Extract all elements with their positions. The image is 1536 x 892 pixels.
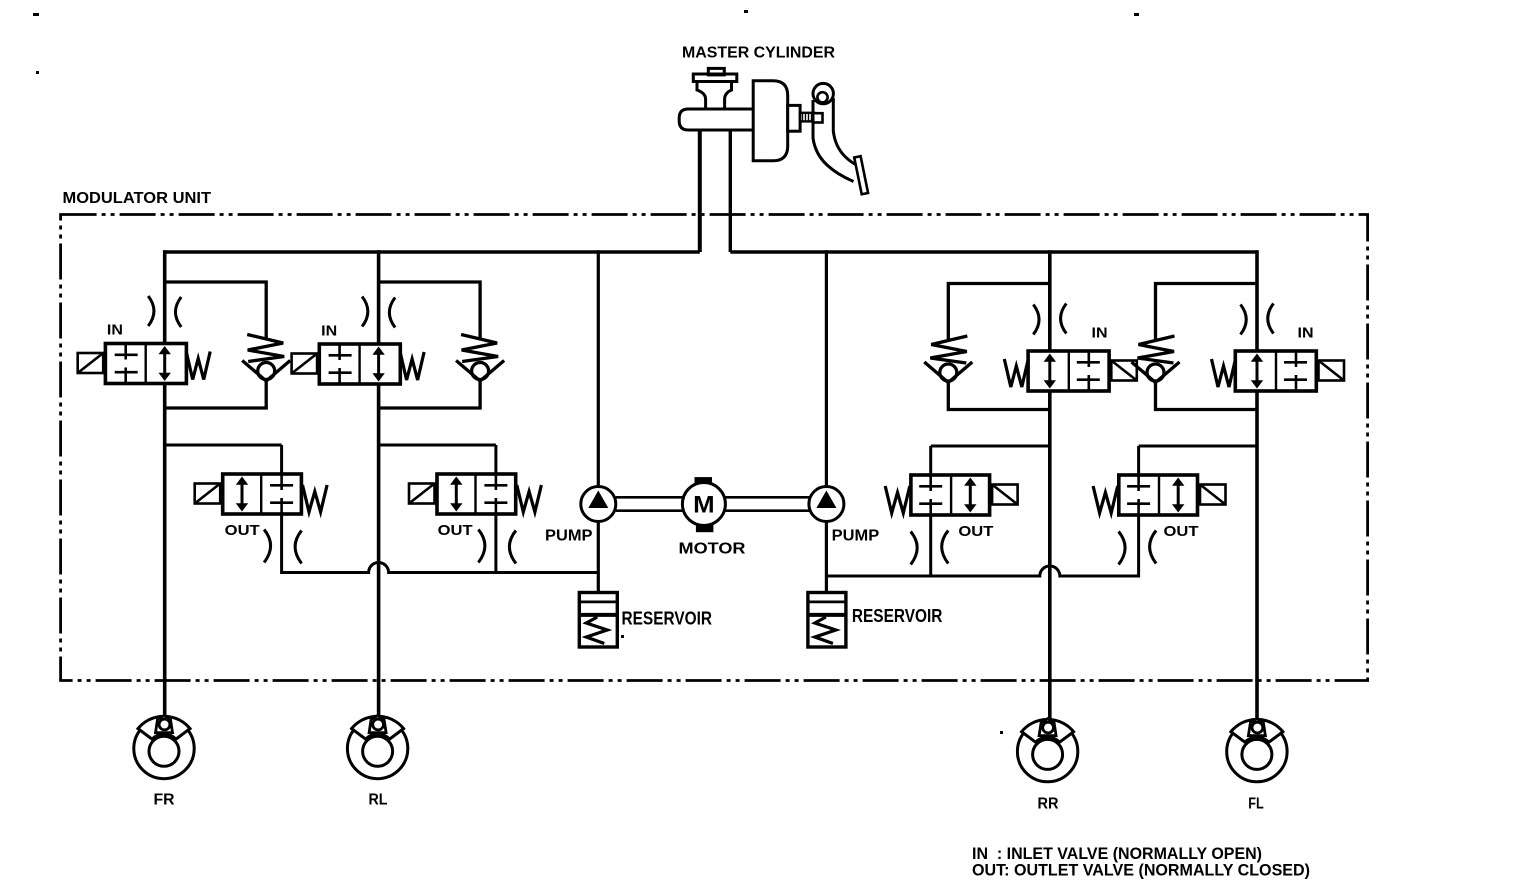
- svg-text:MOTOR: MOTOR: [679, 541, 746, 558]
- svg-text:IN: IN: [1092, 325, 1108, 342]
- svg-text:RESERVOIR: RESERVOIR: [622, 608, 713, 628]
- svg-text:FL: FL: [1248, 796, 1264, 813]
- svg-text:RESERVOIR: RESERVOIR: [852, 606, 943, 626]
- svg-text:IN: IN: [1298, 325, 1314, 342]
- svg-text:PUMP: PUMP: [545, 528, 593, 545]
- svg-text:RL: RL: [369, 792, 388, 809]
- svg-text:OUT: OUTLET VALVE (NORMALLY CL: OUT: OUTLET VALVE (NORMALLY CLOSED): [972, 860, 1310, 879]
- svg-text:IN: IN: [321, 323, 337, 340]
- svg-text:IN: IN: [107, 322, 123, 339]
- svg-text:M: M: [693, 492, 715, 519]
- svg-text:MODULATOR UNIT: MODULATOR UNIT: [63, 190, 212, 207]
- svg-text:FR: FR: [154, 792, 175, 809]
- svg-text:RR: RR: [1038, 796, 1059, 813]
- svg-text:PUMP: PUMP: [832, 528, 880, 545]
- svg-text:OUT: OUT: [1164, 523, 1199, 540]
- svg-text:OUT: OUT: [225, 522, 260, 539]
- svg-text:OUT: OUT: [438, 522, 473, 539]
- svg-text:MASTER CYLINDER: MASTER CYLINDER: [682, 45, 835, 62]
- svg-text:OUT: OUT: [958, 523, 993, 540]
